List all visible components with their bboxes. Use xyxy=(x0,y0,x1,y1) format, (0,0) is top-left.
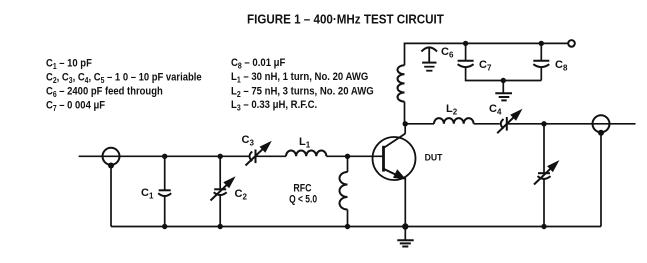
wire: L2 to C4 xyxy=(474,123,500,125)
transistor DUT circle xyxy=(373,137,416,180)
wire: main input line L1 to transistor base xyxy=(326,155,383,157)
wire: choke vertical below coil xyxy=(404,102,406,124)
supply terminal circle xyxy=(568,40,575,47)
capacitor C4 plates (series, variable) xyxy=(501,117,507,131)
inductor L3 RFC (base choke) xyxy=(340,172,348,210)
svg-text:FIGURE 1 – 400·MHz TEST CIRCUI: FIGURE 1 – 400·MHz TEST CIRCUIT xyxy=(247,12,444,26)
inductor L1 xyxy=(286,151,326,157)
inductor L2 xyxy=(434,118,474,124)
node: C7/C8 ground junction xyxy=(501,78,506,83)
capacitor C5 arrow xyxy=(534,160,559,184)
capacitor C7 plates xyxy=(458,61,474,67)
capacitor C1 branch wire bottom xyxy=(164,196,166,227)
capacitor C2 plates xyxy=(214,189,227,195)
capacitor C7 branch wire top xyxy=(465,43,467,60)
transistor base bar xyxy=(382,146,385,172)
transistor emitter lead with arrow xyxy=(384,169,407,180)
svg-text:C6 – 2400 pF feed through: C6 – 2400 pF feed through xyxy=(46,86,163,99)
capacitor C4 arrow xyxy=(497,109,522,133)
capacitor C2 arrow xyxy=(211,176,236,200)
transistor collector lead xyxy=(384,134,406,148)
wire: C8 bottom drop xyxy=(540,67,542,80)
wire: RFC branch bottom xyxy=(347,210,349,227)
wire: collector line node to L2 xyxy=(405,123,434,125)
inductor collector choke xyxy=(398,65,405,101)
capacitor C8 plates xyxy=(533,61,549,67)
node: C7 top xyxy=(463,41,468,46)
capacitor C8 branch wire top xyxy=(540,43,542,60)
wire: bottom rail xyxy=(111,226,601,228)
capacitor C3 plates (series, variable) xyxy=(250,150,256,164)
svg-text:L3 – 0.33 μH, R.F.C.: L3 – 0.33 μH, R.F.C. xyxy=(231,100,317,113)
capacitor C1 branch wire top xyxy=(164,156,166,190)
capacitor C3 arrow xyxy=(246,141,272,166)
node: C2 bottom xyxy=(218,224,223,229)
node: C5 top junction xyxy=(541,121,546,126)
legend column 1: C1, C2-C5, C6, C7 values xyxy=(46,58,202,113)
node: C2 top xyxy=(218,154,223,159)
wire: collector vertical to node xyxy=(404,124,406,134)
wire: main input line left of C3 xyxy=(79,155,249,157)
svg-text:Q < 5.0: Q < 5.0 xyxy=(289,194,317,206)
ground below C7/C8 xyxy=(495,81,512,101)
wire: emitter drop xyxy=(404,177,406,227)
label RFC Q<5.0 xyxy=(289,182,317,206)
node: C1 top xyxy=(162,154,167,159)
wire: main input line C3 to L1 xyxy=(256,155,287,157)
legend column 2: C8, L1, L2, L3 values xyxy=(231,57,374,113)
node: C1 bottom xyxy=(162,224,167,229)
capacitor C2 branch wire top xyxy=(219,156,221,189)
node: C8 top xyxy=(539,41,544,46)
node: output port bottom junction xyxy=(598,130,604,136)
node: collector junction xyxy=(403,121,408,126)
wire: output drop xyxy=(600,133,602,227)
node: C5 bottom xyxy=(541,224,546,229)
ground below emitter xyxy=(397,227,413,247)
input port circle xyxy=(103,148,120,165)
capacitor C6 (feed through) xyxy=(421,47,437,70)
node: input port bottom junction xyxy=(108,163,114,169)
svg-text:DUT: DUT xyxy=(425,152,443,162)
capacitor C5 branch wire bottom xyxy=(543,179,545,227)
wire: RFC branch top xyxy=(347,156,349,172)
svg-text:L1 – 30 nH, 1 turn, No. 20 AWG: L1 – 30 nH, 1 turn, No. 20 AWG xyxy=(231,72,368,85)
capacitor C2 branch wire bottom xyxy=(219,195,221,227)
output port circle xyxy=(593,115,610,132)
capacitor C5 plates xyxy=(538,173,551,179)
wire: C7 bottom drop and link xyxy=(466,67,542,80)
node: RFC bottom xyxy=(345,224,350,229)
wire: C4 to right end xyxy=(507,123,636,125)
node: RFC top junction xyxy=(345,154,350,159)
capacitor C5 branch wire top xyxy=(543,124,545,173)
svg-text:L2 – 75 nH, 3 turns, No. 20 AW: L2 – 75 nH, 3 turns, No. 20 AWG xyxy=(231,86,374,99)
capacitor C1 plates xyxy=(158,190,171,196)
wire: input drop xyxy=(110,166,112,227)
wire: choke vertical above coil + top rail corner xyxy=(405,43,569,65)
node: emitter bottom junction xyxy=(402,223,408,229)
